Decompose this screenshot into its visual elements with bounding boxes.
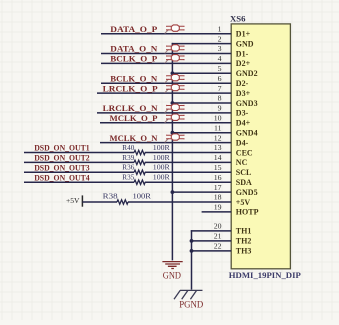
net label DSD_ON_OUT4 [34,172,90,182]
svg-text:GND: GND [236,39,254,48]
svg-text:100R: 100R [153,153,171,162]
net label BCLK_O_N [110,73,158,83]
svg-text:D4-: D4- [236,138,249,147]
svg-text:R35: R35 [122,173,134,182]
svg-text:5: 5 [218,64,222,73]
wire LRCLK_O_P to pin 7 [97,92,231,94]
resistor R35 100R [122,173,170,185]
svg-text:17: 17 [214,183,222,192]
svg-text:7: 7 [218,84,222,93]
wire GND bus to pin 2 [172,43,232,45]
pin 8 (GND3) number and name [218,94,258,108]
net label DSD_ON_OUT3 [34,163,89,173]
svg-text:MCLK_O_P: MCLK_O_P [110,113,158,123]
pin 3 (D1-) number and name [218,44,249,58]
svg-text:100R: 100R [153,173,171,182]
svg-text:D1-: D1- [236,49,249,58]
wire LRCLK_O_N to pin 9 [97,112,231,114]
pin 20 (TH1) number and name [214,222,252,236]
svg-text:22: 22 [214,242,222,251]
svg-text:3: 3 [218,44,222,53]
wire GND bus to pin 11 [172,132,232,134]
wire DSD_ON_OUT1 to resistor R40 to pin 13 [24,152,231,154]
svg-text:SDA: SDA [236,178,252,187]
svg-text:DATA_O_P: DATA_O_P [110,24,157,34]
svg-text:PGND: PGND [179,299,203,309]
wire MCLK_O_N to pin 12 [100,142,231,144]
svg-text:CEC: CEC [236,148,253,157]
wire TH bus to pin 22 [191,250,231,252]
svg-text:BCLK_O_N: BCLK_O_N [110,73,158,83]
svg-text:R39: R39 [122,153,134,162]
svg-text:DATA_O_N: DATA_O_N [110,44,158,54]
pin 9 (D3-) number and name [218,104,249,118]
svg-text:+5V: +5V [66,196,80,205]
wire stub pin 19 HOTP [202,211,232,213]
power port +5V [66,195,82,206]
svg-text:DSD_ON_OUT3: DSD_ON_OUT3 [34,163,89,173]
pin 17 (GND5) number and name [214,183,258,197]
marker symbol on LRCLK_O_N [165,104,184,113]
wire DSD_ON_OUT2 to resistor R39 to pin 14 [24,161,231,163]
svg-text:DSD_ON_OUT1: DSD_ON_OUT1 [34,143,89,153]
svg-text:D2-: D2- [236,79,249,88]
marker symbol on DATA_O_P [165,25,184,34]
svg-text:14: 14 [214,153,222,162]
junction at bus pin 21 [190,239,194,243]
svg-text:LRCLK_O_N: LRCLK_O_N [103,103,159,113]
connector XS6 body [231,24,290,269]
svg-text:TH2: TH2 [236,237,252,246]
svg-text:100R: 100R [153,143,171,152]
svg-text:HOTP: HOTP [236,208,259,217]
svg-text:HDMI_19PIN_DIP: HDMI_19PIN_DIP [229,271,301,280]
svg-text:LRCLK_O_P: LRCLK_O_P [103,83,158,93]
svg-text:9: 9 [218,104,222,113]
marker symbol on MCLK_O_P [165,114,184,123]
svg-text:D2+: D2+ [236,59,251,68]
pin 18 (+5V) number and name [214,193,251,207]
part comment HDMI_19PIN_DIP [229,271,301,280]
net label LRCLK_O_P [103,83,158,93]
pin 2 (GND) number and name [218,34,254,48]
pin 11 (GND4) number and name [214,123,258,137]
svg-text:R38: R38 [103,191,118,200]
net label DATA_O_P [110,24,157,34]
svg-text:8: 8 [218,94,222,103]
marker symbol on BCLK_O_N [165,74,184,83]
pin 5 (GND2) number and name [218,64,258,78]
marker symbol on DATA_O_N [165,45,184,54]
svg-text:NC: NC [236,158,248,167]
svg-text:18: 18 [214,193,222,202]
resistor R38 100R [103,191,152,204]
svg-text:SCL: SCL [236,168,252,177]
pin 13 (CEC) number and name [214,143,253,157]
svg-text:D4+: D4+ [236,119,251,128]
svg-text:11: 11 [214,123,222,132]
svg-text:12: 12 [214,133,222,142]
svg-text:15: 15 [214,163,222,172]
svg-text:13: 13 [214,143,222,152]
net label BCLK_O_P [110,54,157,64]
svg-text:6: 6 [218,74,222,83]
pin 10 (D4+) number and name [214,114,251,128]
pin 15 (SCL) number and name [214,163,252,177]
svg-text:GND4: GND4 [236,129,258,138]
junction at bus pin 17 [171,190,175,194]
svg-text:R36: R36 [122,163,134,172]
wire MCLK_O_P to pin 10 [100,122,231,124]
resistor R39 100R [122,153,170,165]
pin 21 (TH2) number and name [214,232,252,246]
wire DSD_ON_OUT4 to resistor R35 to pin 16 [24,181,231,183]
resistor R40 100R [122,143,170,155]
net label DSD_ON_OUT1 [34,143,89,153]
svg-text:DSD_ON_OUT2: DSD_ON_OUT2 [34,153,89,163]
net label DATA_O_N [110,44,158,54]
svg-text:+5V: +5V [236,198,251,207]
pin 16 (SDA) number and name [214,173,252,187]
svg-text:GND: GND [163,270,182,280]
svg-text:100R: 100R [133,191,153,200]
wire TH bus to pin 21 [191,240,231,242]
svg-text:TH3: TH3 [236,247,252,256]
svg-text:DSD_ON_OUT4: DSD_ON_OUT4 [34,172,90,182]
svg-text:4: 4 [218,54,222,63]
marker symbol on MCLK_O_N [165,134,184,143]
pin 19 (HOTP) number and name [214,203,259,217]
svg-text:GND3: GND3 [236,99,258,108]
svg-text:D3-: D3- [236,109,249,118]
svg-text:R40: R40 [122,143,134,152]
svg-text:19: 19 [214,203,222,212]
svg-text:TH1: TH1 [236,227,252,236]
net label DSD_ON_OUT2 [34,153,89,163]
wire DSD_ON_OUT3 to resistor R36 to pin 15 [24,171,231,173]
net label MCLK_O_N [110,133,159,143]
pin 14 (NC) number and name [214,153,248,167]
pin 6 (D2-) number and name [218,74,249,88]
net label MCLK_O_P [110,113,158,123]
svg-text:2: 2 [218,34,222,43]
svg-text:10: 10 [214,114,222,123]
wire BCLK_O_N to pin 6 [101,82,231,84]
pin 1 (D1+) number and name [218,24,251,38]
wire DATA_O_P to pin 1 [101,33,231,35]
junction at bus pin 5 [171,71,175,75]
svg-text:21: 21 [214,232,222,241]
svg-text:1: 1 [218,24,222,33]
svg-text:D3+: D3+ [236,89,251,98]
wire GND bus to pin 5 [172,72,232,74]
wire BCLK_O_P to pin 4 [101,62,231,64]
svg-text:100R: 100R [153,163,171,172]
net label LRCLK_O_N [103,103,159,113]
ground GND symbol [162,262,182,281]
designator XS6 [230,13,246,23]
svg-text:GND2: GND2 [236,69,258,78]
svg-text:GND5: GND5 [236,188,258,197]
svg-text:20: 20 [214,222,222,231]
pin 22 (TH3) number and name [214,242,252,256]
pin 4 (D2+) number and name [218,54,251,68]
svg-text:16: 16 [214,173,222,182]
TH bus vertical wire [191,230,193,289]
marker symbol on BCLK_O_P [165,55,184,64]
wire GND bus to pin 17 [172,191,232,193]
pin 7 (D3+) number and name [218,84,251,98]
marker symbol on LRCLK_O_P [165,84,184,93]
wire TH bus to pin 20 [191,230,231,232]
wire +5V to resistor R38 to pin 18 [82,201,231,203]
junction at bus pin 22 [190,249,194,253]
pin 12 (D4-) number and name [214,133,249,147]
svg-text:MCLK_O_N: MCLK_O_N [110,133,159,143]
svg-text:BCLK_O_P: BCLK_O_P [110,54,157,64]
resistor R36 100R [122,163,170,175]
power ground PGND symbol [174,290,204,309]
svg-text:D1+: D1+ [236,30,251,39]
wire DATA_O_N to pin 3 [101,53,231,55]
wire GND bus to pin 8 [172,102,232,104]
GND bus vertical wire [171,43,173,261]
svg-text:XS6: XS6 [230,13,246,23]
junction at bus pin 11 [171,131,175,135]
junction at bus pin 8 [171,101,175,105]
